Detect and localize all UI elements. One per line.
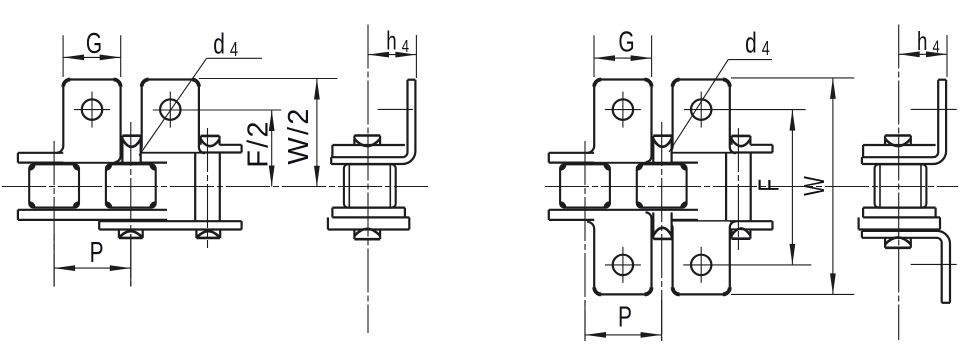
svg-text:P: P <box>618 301 632 333</box>
svg-text:W/2: W/2 <box>283 106 315 164</box>
svg-text:G: G <box>86 28 102 60</box>
svg-text:F/2: F/2 <box>243 119 275 168</box>
svg-text:G: G <box>618 26 634 58</box>
svg-text:F: F <box>753 179 785 192</box>
svg-text:W: W <box>799 176 831 196</box>
svg-text:P: P <box>90 237 104 269</box>
